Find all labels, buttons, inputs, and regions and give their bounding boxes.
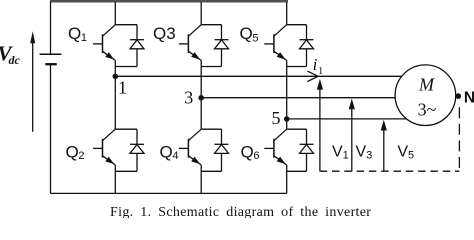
svg-text:5: 5	[272, 108, 281, 128]
svg-text:Q3: Q3	[153, 24, 176, 43]
diode D3	[215, 25, 229, 67]
svg-text:3: 3	[366, 149, 372, 161]
svg-text:5: 5	[408, 149, 414, 161]
svg-text:5: 5	[252, 32, 258, 44]
svg-text:V: V	[397, 143, 408, 160]
svg-text:Q: Q	[66, 142, 79, 161]
svg-text:1: 1	[343, 149, 349, 161]
diode D1	[130, 25, 144, 67]
diode D4	[215, 129, 229, 171]
svg-text:3: 3	[184, 88, 193, 108]
wire Q5 emitter-diode join	[287, 66, 307, 68]
wire leg3 bottom segment	[286, 165, 288, 193]
diode D2	[130, 129, 144, 171]
arrow V3 measurement	[349, 99, 355, 172]
svg-text:3~: 3~	[418, 99, 437, 119]
wire dashed reference bottom	[320, 170, 460, 172]
battery Vdc plate short	[45, 63, 57, 65]
node N dot	[456, 93, 462, 99]
wire left DC link lower	[50, 64, 52, 193]
node 3 junction dot	[198, 95, 204, 101]
wire Q4 emitter-diode join	[201, 170, 221, 172]
svg-text:6: 6	[253, 150, 259, 162]
svg-text:Q: Q	[68, 24, 81, 43]
svg-text:4: 4	[172, 150, 178, 162]
svg-text:Fig. 1. Schematic diagram of t: Fig. 1. Schematic diagram of the inverte…	[110, 205, 371, 218]
svg-text:M: M	[418, 74, 435, 94]
diode D6	[300, 129, 314, 171]
svg-text:i: i	[313, 55, 318, 74]
wire leg2 middle segment	[200, 60, 202, 129]
svg-text:2: 2	[78, 150, 84, 162]
wire Q5 collector-diode branch	[287, 24, 307, 26]
svg-text:V: V	[332, 143, 343, 160]
svg-text:1: 1	[318, 65, 324, 77]
node 1 junction dot	[113, 74, 119, 80]
arrow current i1	[307, 71, 318, 81]
wire Q1 emitter-diode join	[115, 66, 137, 68]
transistor Q3	[179, 25, 201, 61]
transistor Q1	[93, 25, 115, 61]
wire dashed neutral N	[458, 107, 460, 171]
svg-text:Q: Q	[241, 142, 254, 161]
wire Q6 collector-diode branch	[287, 128, 307, 130]
wire Q2 emitter-diode join	[115, 170, 137, 172]
svg-text:Q: Q	[240, 24, 253, 43]
wire leg1 collector segment	[114, 2, 116, 25]
arrow V5 measurement	[381, 120, 387, 171]
arrow V1 measurement	[317, 79, 323, 171]
arrow Vdc polarity	[30, 31, 35, 132]
wire leg1 bottom segment	[114, 165, 116, 193]
transistor Q5	[264, 25, 286, 61]
svg-text:1: 1	[81, 32, 87, 44]
wire Q3 collector-diode branch	[201, 24, 221, 26]
wire top DC+ rail	[50, 0, 288, 3]
battery Vdc plate long	[40, 53, 62, 55]
wire leg3 middle segment	[286, 60, 288, 129]
wire leg3 collector segment	[286, 2, 288, 25]
transistor Q4	[179, 129, 201, 165]
wire Q4 collector-diode branch	[201, 128, 221, 130]
transistor Q2	[93, 129, 115, 165]
wire Q1 collector-diode branch	[115, 24, 137, 26]
wire left DC link upper	[50, 2, 52, 54]
motor M circle	[395, 65, 456, 126]
wire leg2 bottom segment	[200, 165, 202, 193]
transistor Q6	[264, 129, 286, 165]
wire leg1 middle segment	[114, 60, 116, 129]
diode D5	[300, 25, 314, 67]
svg-text:Q: Q	[160, 142, 173, 161]
wire Q6 emitter-diode join	[287, 170, 307, 172]
wire bottom DC- rail	[51, 192, 287, 194]
node 5 junction dot	[284, 116, 290, 122]
svg-text:1: 1	[118, 78, 127, 98]
svg-text:N: N	[464, 90, 474, 107]
wire leg2 collector segment	[200, 2, 202, 25]
wire Q2 collector-diode branch	[115, 128, 137, 130]
svg-text:V: V	[356, 143, 367, 160]
wire phase line 3	[201, 97, 395, 99]
wire phase line 5	[287, 118, 407, 120]
svg-text:dc: dc	[9, 53, 21, 67]
wire phase line 1	[115, 75, 401, 77]
wire Q3 emitter-diode join	[201, 66, 221, 68]
